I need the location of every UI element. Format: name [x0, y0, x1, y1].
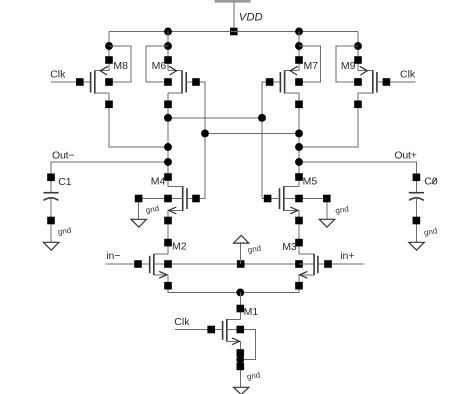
wire M8 bulk loop [109, 46, 131, 82]
pin M7 gate [266, 78, 274, 86]
pin M9 source [354, 56, 362, 64]
pin bulk-gnd stem [237, 260, 245, 268]
label C0 [424, 176, 438, 188]
wire tail column [239, 292, 241, 319]
wire M6 gate to cross-couple [186, 82, 205, 199]
wire M4 bulk to ground [139, 199, 168, 220]
wire M1 bulk loop [240, 330, 255, 360]
node line1 right junction [258, 114, 266, 122]
transistor M6 [168, 66, 186, 93]
svg-text:VDD: VDD [239, 11, 263, 23]
pin C0 top [413, 174, 421, 182]
pin M2 bulk [164, 260, 172, 268]
pin M6 drain [164, 101, 172, 109]
node Out- junction [164, 158, 172, 166]
pin M1 bulk [237, 326, 245, 334]
wire M9 drain down [299, 93, 358, 147]
pin M3 source [295, 282, 303, 290]
pin M1 gnd [237, 363, 245, 371]
pin M9 gate [383, 78, 391, 86]
wire M5 bulk to ground [299, 199, 327, 220]
svg-text:C0: C0 [424, 176, 438, 188]
pin M1 drain [237, 305, 245, 313]
wire M9 gate to Clk [377, 81, 416, 83]
pin M6 source [164, 56, 172, 64]
pin M7 source [295, 56, 303, 64]
pin M2 source [164, 282, 172, 290]
transistor M3 [299, 254, 318, 278]
svg-text:M4: M4 [151, 175, 166, 187]
pin C1 bottom [47, 217, 55, 225]
node M8 bulk junction [105, 42, 113, 50]
node M8 drain join [164, 143, 172, 151]
node M9 bulk junction [354, 42, 362, 50]
node M1 source/bulk junction [236, 356, 244, 364]
pin M7 bulk [295, 78, 303, 86]
node M9 drain join [295, 143, 303, 151]
ground symbol at M1 [234, 387, 249, 394]
pin M8 source [105, 56, 113, 64]
svg-text:C1: C1 [58, 176, 72, 188]
wire M9 source column [357, 32, 359, 71]
transistor M2 [150, 254, 168, 278]
ground symbol center (up) [234, 235, 249, 243]
svg-text:Out+: Out+ [394, 149, 416, 161]
capacitor C1 [43, 193, 58, 243]
wire M2 source [168, 275, 240, 293]
capacitor C0 [409, 193, 424, 243]
svg-text:Clk: Clk [400, 69, 416, 81]
svg-text:M3: M3 [282, 241, 297, 253]
svg-text:in+: in+ [340, 250, 354, 262]
transistor M7 [280, 66, 299, 93]
pin M7 drain [295, 101, 303, 109]
svg-text:in−: in− [106, 250, 120, 262]
wire M7 bulk loop [299, 46, 320, 82]
pin M8 bulk [105, 78, 113, 86]
transistor M4 [168, 186, 187, 214]
svg-text:Clk: Clk [50, 69, 66, 81]
transistor M8 [91, 66, 109, 93]
wire M7 gate to cross-couple [262, 82, 280, 199]
pin M6 bulk [164, 78, 172, 86]
pin M4 source [164, 217, 172, 225]
node Out+ junction [295, 158, 303, 166]
pin M8 gate [76, 78, 84, 86]
svg-text:M8: M8 [113, 60, 128, 72]
wire M4 source column [167, 210, 169, 254]
pin M6 gate [192, 78, 200, 86]
wire bulk gnd stem [240, 243, 242, 264]
wire M9 bulk loop [336, 46, 358, 82]
wire M5 gate [262, 198, 280, 200]
node M6 bulk junction [164, 42, 172, 50]
wire M4 gate [187, 198, 205, 200]
wire M2/M3 bulk line [168, 263, 299, 265]
transistor M5 [280, 186, 300, 214]
wire Clk to M1 gate [175, 329, 223, 331]
wire in- to M2 gate [106, 263, 150, 265]
node rail-M6 junction [164, 28, 172, 36]
wire cross-couple line Out- to M5/M7 gates [168, 117, 262, 119]
pin C0 bottom [413, 217, 421, 225]
pin M5 drain [295, 173, 303, 181]
pin C1 top [47, 174, 55, 182]
wire M8 source column [108, 32, 110, 71]
wire M7 drain / Out+ column [298, 93, 300, 187]
pin M1 gate [207, 326, 215, 334]
transistor M9 [358, 66, 377, 93]
wire M5 source column [298, 210, 300, 254]
wire M6 source column [167, 32, 169, 71]
node line2 left junction [201, 129, 209, 137]
wire M6 bulk loop [146, 46, 168, 82]
VDD supply bar [215, 0, 251, 3]
node M7 bulk junction [295, 42, 303, 50]
pin M1 source [237, 349, 245, 357]
pin M9 bulk [354, 78, 362, 86]
svg-text:M9: M9 [341, 60, 356, 72]
wire Out- [51, 162, 168, 193]
ground symbol at C1 [43, 242, 59, 250]
svg-text:M5: M5 [303, 175, 318, 187]
ground symbol at C0 [409, 242, 425, 250]
wire M7 source column [298, 32, 300, 71]
ground symbol at M4 bulk [131, 219, 147, 227]
wire M3 source [240, 275, 299, 293]
svg-text:M6: M6 [152, 60, 167, 72]
pin M5 source [295, 217, 303, 225]
ground symbol at M5 bulk [319, 219, 335, 227]
pin M4 bulk-gnd [135, 195, 143, 203]
wire cross-couple line Out+ to M4/M6 gates [205, 132, 299, 134]
node VDD junction square [230, 28, 238, 36]
pin M4 gate [192, 195, 200, 203]
node line2 right junction [295, 129, 303, 137]
pin M3 bulk [295, 260, 303, 268]
svg-text:Out−: Out− [52, 150, 74, 162]
wire VDD stem [233, 1, 235, 32]
wire VDD rail [109, 31, 358, 33]
svg-text:M2: M2 [172, 240, 187, 252]
wire M1 source to ground [239, 341, 241, 387]
pin M3 gate [324, 260, 332, 268]
pin M9 drain [354, 101, 362, 109]
pin M5 bulk-gnd [323, 195, 331, 203]
svg-text:M1: M1 [244, 306, 259, 318]
pin M2 gate [134, 260, 142, 268]
wire Clk to M8 gate [51, 81, 91, 83]
pin M5 bulk [295, 195, 303, 203]
wire M3 gate to in+ [318, 263, 365, 265]
pin M5 gate [264, 195, 272, 203]
pin M4 drain [164, 173, 172, 181]
node rail-M7 junction [295, 28, 303, 36]
wire M8 drain down [109, 93, 168, 147]
pin M4 bulk [164, 195, 172, 203]
wire Out+ [299, 162, 416, 193]
svg-text:M7: M7 [304, 60, 319, 72]
pin M2 drain [164, 239, 172, 247]
pin M3 drain [295, 239, 303, 247]
node tail junction [236, 288, 244, 296]
pin M8 drain [105, 101, 113, 109]
wire M6 drain / Out- column [167, 93, 169, 187]
node line1 left junction [164, 114, 172, 122]
transistor M1 [223, 319, 241, 345]
svg-text:Clk: Clk [174, 316, 190, 328]
